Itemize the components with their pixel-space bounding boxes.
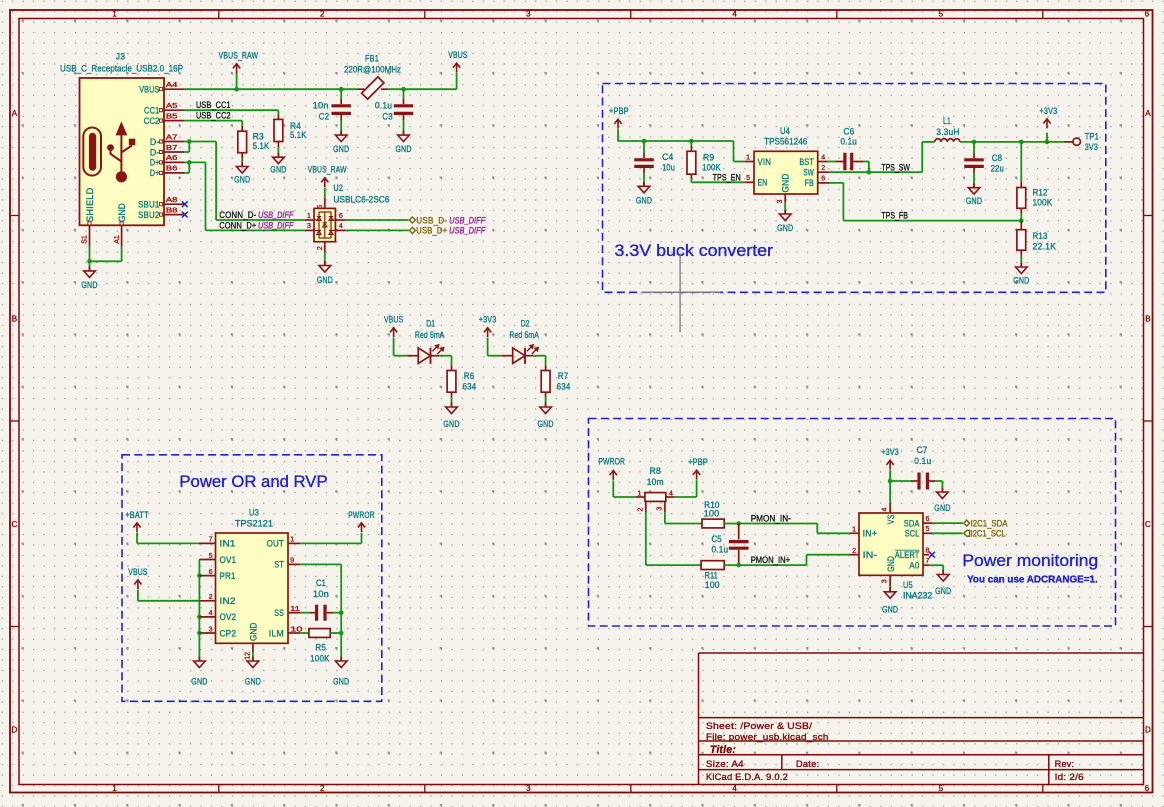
resistor R5 100K [300, 629, 341, 665]
svg-text:PMON_IN+: PMON_IN+ [751, 555, 791, 566]
svg-text:ALERT: ALERT [895, 550, 920, 561]
resistor R4 5.1K [274, 115, 307, 147]
svg-text:GND: GND [191, 676, 207, 687]
junction [888, 479, 893, 484]
ground GND R4 [270, 153, 286, 176]
capacitor C3 0.1u [375, 89, 413, 122]
svg-text:+3V3: +3V3 [479, 315, 497, 326]
junction [736, 563, 741, 568]
led D2 Red 5mA [502, 318, 540, 364]
resistor R9 100K [687, 141, 721, 179]
wire TPS_FB [829, 183, 1021, 221]
wire VBUS A4 rail [184, 73, 457, 89]
wire TPS_SW [829, 142, 935, 172]
wire [674, 480, 697, 497]
svg-text:GND: GND [777, 223, 793, 234]
svg-text:Red 5mA: Red 5mA [415, 330, 445, 341]
svg-text:D-: D- [150, 147, 160, 158]
junction [339, 87, 344, 92]
svg-text:GND: GND [248, 622, 259, 641]
svg-text:CP2: CP2 [220, 628, 237, 639]
svg-text:1: 1 [852, 527, 856, 534]
junction [234, 87, 239, 92]
test point TP1 3V3 [1064, 132, 1099, 154]
wire PMON_IN+ [724, 555, 850, 565]
svg-text:3: 3 [881, 579, 888, 583]
svg-text:5: 5 [317, 205, 324, 209]
svg-text:GND: GND [882, 604, 898, 615]
inductor L1 3.3uH [935, 116, 960, 142]
svg-text:3.3uH: 3.3uH [936, 127, 959, 138]
capacitor C5 0.1u [712, 524, 749, 566]
ground GND C7 [934, 488, 950, 514]
capacitor C1 10n [300, 578, 341, 621]
svg-text:USB_CC2: USB_CC2 [196, 111, 231, 122]
svg-text:1: 1 [307, 213, 311, 220]
svg-text:GND: GND [333, 144, 349, 155]
svg-text:C5: C5 [712, 534, 722, 545]
cursor crosshair [642, 253, 720, 332]
ground GND C4 [636, 182, 652, 207]
svg-text:3: 3 [656, 506, 663, 510]
svg-text:You can use ADCRANGE=1.: You can use ADCRANGE=1. [967, 573, 1098, 585]
wire [340, 120, 342, 135]
svg-text:GND: GND [935, 586, 951, 597]
svg-text:Id: 2/6: Id: 2/6 [1055, 772, 1084, 783]
svg-text:OUT: OUT [267, 539, 284, 550]
svg-text:S1: S1 [82, 235, 89, 244]
svg-text:VBUS_RAW: VBUS_RAW [219, 51, 259, 62]
svg-text:ST: ST [274, 560, 284, 571]
svg-text:0.1u: 0.1u [712, 544, 729, 555]
svg-text:IN+: IN+ [863, 529, 878, 540]
svg-text:VBUS: VBUS [384, 315, 403, 326]
connector J3 USB_C_Receptacle_USB2.0_16P [60, 52, 184, 247]
svg-text:PWROR: PWROR [348, 510, 375, 521]
svg-text:B5: B5 [166, 113, 178, 120]
power flag VBUS [384, 315, 403, 338]
svg-text:TPS_SW: TPS_SW [881, 162, 910, 173]
wire [277, 147, 279, 157]
svg-text:USB_DIFF: USB_DIFF [449, 226, 486, 237]
svg-text:4: 4 [881, 507, 888, 511]
svg-text:2: 2 [821, 165, 825, 172]
junction [187, 160, 192, 165]
svg-text:CC2: CC2 [144, 116, 160, 127]
svg-text:SBU2: SBU2 [138, 210, 160, 221]
svg-text:+3V3: +3V3 [1040, 106, 1058, 117]
power flag VBUS [448, 50, 467, 73]
svg-text:IN1: IN1 [220, 539, 236, 550]
junction [1019, 218, 1024, 223]
svg-text:A8: A8 [166, 197, 178, 204]
svg-text:VBUS: VBUS [139, 85, 159, 96]
ground GND U3 [245, 657, 261, 688]
svg-text:B: B [12, 314, 18, 323]
svg-text:8: 8 [926, 548, 930, 555]
wire [324, 188, 326, 198]
svg-text:2: 2 [209, 594, 213, 601]
ground GND C8 [966, 183, 982, 207]
no-connect ALERT [929, 552, 935, 558]
junction [867, 170, 872, 175]
svg-text:A: A [1145, 109, 1151, 118]
svg-text:1: 1 [638, 490, 642, 497]
svg-text:4: 4 [732, 10, 737, 19]
power flag +PBP mon [688, 457, 708, 480]
ground GND A0 [935, 570, 951, 597]
svg-text:100: 100 [704, 509, 720, 520]
svg-text:3: 3 [526, 10, 531, 19]
svg-text:100K: 100K [310, 654, 330, 665]
svg-text:634: 634 [463, 382, 477, 393]
svg-text:1: 1 [112, 784, 117, 793]
wire [973, 173, 975, 187]
resistor R6 634 [447, 365, 476, 397]
svg-text:GND: GND [443, 419, 459, 430]
svg-text:R5: R5 [315, 642, 326, 653]
svg-text:OV1: OV1 [220, 555, 237, 566]
svg-text:A1: A1 [114, 235, 121, 244]
svg-text:KiCad E.D.A. 9.0.2: KiCad E.D.A. 9.0.2 [706, 772, 788, 783]
svg-text:GND: GND [333, 676, 349, 687]
wire [1020, 255, 1022, 267]
svg-text:C: C [1145, 520, 1151, 529]
wire [488, 338, 502, 356]
ground GND C3 [395, 131, 411, 155]
svg-text:Sheet: /Power & USB/: Sheet: /Power & USB/ [706, 721, 813, 732]
resistor R10 100 [702, 500, 724, 528]
junction [197, 573, 202, 578]
svg-text:D: D [1145, 725, 1151, 734]
wire USB_CC1 [184, 110, 278, 115]
svg-text:A: A [12, 109, 18, 118]
svg-text:U2: U2 [333, 183, 343, 194]
svg-text:FB: FB [805, 178, 815, 189]
svg-text:634: 634 [557, 382, 571, 393]
svg-text:5: 5 [209, 553, 213, 560]
svg-text:GND: GND [317, 275, 333, 286]
graphic box 3.3V buck converter [603, 84, 1106, 293]
svg-text:+3V3: +3V3 [881, 447, 899, 458]
svg-text:I2C1_SCL: I2C1_SCL [971, 529, 1006, 540]
svg-text:IN2: IN2 [220, 596, 236, 607]
graphic box Power monitoring [589, 419, 1116, 627]
wire [864, 162, 869, 173]
power flag VBUS OR [128, 567, 147, 590]
power flag PWROR [348, 510, 375, 533]
svg-text:3.3V buck converter: 3.3V buck converter [615, 241, 774, 260]
svg-text:B6: B6 [166, 166, 178, 173]
svg-text:VBUS: VBUS [448, 50, 467, 61]
resistor R7 634 [541, 365, 570, 397]
svg-text:SBU1: SBU1 [138, 200, 160, 211]
wire [545, 397, 547, 407]
svg-text:VS: VS [886, 514, 897, 524]
svg-text:C2: C2 [319, 111, 330, 122]
wire PWROR out [300, 533, 361, 543]
wire [403, 120, 405, 135]
wire [137, 533, 200, 544]
capacitor C2 10n [313, 89, 351, 122]
junction [87, 259, 92, 264]
svg-text:SHIELD: SHIELD [85, 188, 96, 223]
svg-text:5: 5 [939, 10, 944, 19]
svg-text:5.1K: 5.1K [253, 141, 270, 152]
svg-text:TPS_FB: TPS_FB [881, 211, 908, 222]
svg-text:D2: D2 [521, 318, 530, 329]
svg-text:3: 3 [307, 223, 311, 230]
wire PMON_IN- [724, 524, 850, 534]
wire R8.2 to R11 [646, 512, 701, 565]
svg-text:100: 100 [705, 580, 720, 591]
svg-text:5: 5 [939, 784, 944, 793]
svg-text:PMON_IN-: PMON_IN- [751, 514, 791, 525]
svg-text:TPS561246: TPS561246 [764, 136, 807, 147]
svg-text:INA232: INA232 [903, 591, 932, 602]
svg-text:3: 3 [526, 784, 531, 793]
junction [736, 521, 741, 526]
resistor R11 100 [701, 561, 724, 591]
power flag +3V3 [1040, 106, 1058, 129]
wire TPS_EN [691, 179, 744, 183]
no-connect SBU2 [182, 212, 188, 218]
svg-text:GND: GND [395, 144, 411, 155]
power flag +BATT [125, 510, 149, 533]
power flag VBUS_RAW U2 [308, 165, 347, 188]
svg-text:0.1u: 0.1u [375, 101, 392, 112]
svg-text:1: 1 [290, 537, 294, 544]
svg-text:File: power_usb.kicad_sch: File: power_usb.kicad_sch [706, 732, 829, 743]
svg-text:0.1u: 0.1u [914, 456, 931, 467]
svg-text:2: 2 [852, 548, 856, 555]
ground GND R3 [234, 162, 250, 185]
wire OV1-PR1-OV2-CP2 rail [198, 560, 200, 661]
svg-text:GND: GND [234, 175, 250, 186]
svg-text:GND: GND [117, 203, 128, 222]
svg-text:BST: BST [799, 157, 814, 168]
power flag +PBP [609, 106, 629, 129]
svg-text:USB_DIFF: USB_DIFF [258, 210, 294, 221]
no-connect SBU1 [182, 201, 188, 207]
wire [252, 652, 254, 661]
power flag +3V3 [479, 315, 497, 338]
ic U5 INA232 [850, 503, 932, 602]
svg-text:Size: A4: Size: A4 [706, 759, 744, 770]
junction [1019, 140, 1024, 145]
ground GND ST rail [333, 657, 349, 688]
wire ST rail [300, 564, 341, 660]
svg-text:Power monitoring: Power monitoring [962, 551, 1098, 570]
svg-text:C3: C3 [382, 111, 393, 122]
ground GND R13 [1013, 263, 1029, 287]
ground GND U5 [882, 587, 898, 615]
ground GND U4 [777, 210, 793, 234]
svg-text:22.1K: 22.1K [1033, 241, 1057, 252]
svg-text:2: 2 [317, 246, 324, 250]
svg-text:OV2: OV2 [220, 612, 237, 623]
junction [197, 615, 202, 620]
svg-text:L1: L1 [943, 116, 951, 127]
svg-text:2: 2 [320, 784, 325, 793]
svg-text:USB_C_Receptacle_USB2.0_16P: USB_C_Receptacle_USB2.0_16P [60, 64, 183, 75]
svg-text:B: B [1145, 314, 1151, 323]
svg-text:Rev:: Rev: [1055, 759, 1075, 770]
svg-text:Power OR and RVP: Power OR and RVP [179, 472, 327, 491]
ground GND U3 left [191, 657, 207, 688]
svg-text:3: 3 [777, 199, 784, 203]
svg-text:SS: SS [274, 608, 284, 619]
ferrite bead FB1 220R@100MHz [344, 53, 401, 99]
svg-text:A0: A0 [909, 561, 919, 572]
svg-text:3V3: 3V3 [1085, 142, 1098, 153]
svg-text:Date:: Date: [796, 759, 819, 770]
svg-text:3: 3 [209, 626, 213, 633]
svg-text:4: 4 [732, 784, 737, 793]
svg-text:6: 6 [339, 213, 343, 220]
wire [534, 356, 546, 366]
svg-text:GND: GND [81, 280, 97, 291]
svg-text:6: 6 [1145, 784, 1150, 793]
capacitor C4 10u [634, 141, 675, 174]
wire CONN_D- [184, 142, 305, 221]
svg-text:GND: GND [886, 556, 897, 572]
ic U3 TPS2121 [199, 507, 302, 659]
ground GND C2 [333, 131, 349, 155]
power flag +3V3 mon [881, 447, 899, 470]
resistor R13 22.1K [1017, 221, 1057, 255]
svg-text:A5: A5 [166, 103, 178, 110]
svg-text:SCL: SCL [905, 529, 920, 540]
svg-text:CONN_D-: CONN_D- [219, 210, 256, 221]
junction [1045, 140, 1050, 145]
led D1 Red 5mA [407, 318, 445, 364]
svg-text:GND: GND [966, 196, 982, 207]
wire [394, 338, 408, 356]
svg-text:CONN_D+: CONN_D+ [219, 221, 256, 232]
svg-text:A6: A6 [166, 155, 178, 162]
hierarchical label USB_D+ [409, 226, 486, 237]
svg-text:1: 1 [746, 154, 750, 161]
ground GND U2 [317, 261, 333, 286]
wire A0 to gnd [929, 565, 943, 574]
svg-text:10m: 10m [647, 477, 664, 488]
svg-text:+PBP: +PBP [688, 457, 708, 468]
svg-text:7: 7 [926, 558, 930, 565]
svg-text:12: 12 [244, 652, 251, 660]
wire [324, 252, 326, 265]
svg-text:U5: U5 [903, 580, 913, 591]
ground GND J3 [81, 267, 97, 291]
svg-text:11: 11 [290, 606, 300, 613]
svg-text:10n: 10n [313, 589, 329, 600]
svg-text:4: 4 [669, 490, 673, 497]
resistor R12 100K [1017, 142, 1053, 213]
svg-text:5: 5 [746, 175, 750, 182]
junction [972, 140, 977, 145]
svg-text:4: 4 [821, 154, 825, 161]
hierarchical label I2C1_SDA [932, 518, 1008, 529]
hierarchical label USB_D- [409, 215, 486, 226]
svg-text:6: 6 [926, 516, 930, 523]
wire [346, 219, 409, 221]
svg-text:TPS_EN: TPS_EN [713, 172, 741, 183]
svg-text:D: D [12, 725, 18, 734]
svg-text:USB_DIFF: USB_DIFF [258, 221, 294, 232]
svg-text:B7: B7 [166, 145, 178, 152]
wire [889, 470, 891, 502]
svg-text:USBLC6-2SC6: USBLC6-2SC6 [333, 195, 389, 206]
svg-text:U3: U3 [249, 507, 259, 518]
svg-text:+BATT: +BATT [125, 510, 149, 521]
svg-text:GND: GND [245, 676, 261, 687]
svg-text:0.1u: 0.1u [841, 137, 857, 148]
svg-text:USB_D+: USB_D+ [416, 226, 447, 237]
svg-text:TP1: TP1 [1085, 132, 1099, 143]
title block [699, 653, 1144, 785]
svg-text:GND: GND [636, 196, 652, 207]
capacitor C6 0.1u [827, 126, 864, 170]
junction [401, 87, 406, 92]
svg-text:CC1: CC1 [144, 106, 160, 117]
junction [689, 139, 694, 144]
svg-text:D1: D1 [426, 318, 435, 329]
wire +PBP to VIN [618, 129, 744, 161]
shunt resistor R8 10m [636, 466, 674, 512]
graphic box Power OR and RVP [122, 455, 382, 702]
ic U2 USBLC6-2SC6 [305, 183, 390, 252]
ground GND R6 [443, 403, 459, 430]
svg-text:D+: D+ [150, 158, 160, 169]
wire [439, 356, 451, 366]
wire CONN_D+ [184, 162, 305, 230]
svg-text:FB1: FB1 [365, 53, 379, 64]
resistor R3 5.1K [238, 126, 270, 158]
svg-text:Title:: Title: [710, 744, 736, 756]
svg-text:7: 7 [209, 537, 213, 544]
wire [889, 586, 891, 592]
svg-text:22u: 22u [991, 164, 1004, 175]
svg-text:VBUS: VBUS [128, 567, 147, 578]
hierarchical label I2C1_SCL [932, 529, 1006, 540]
svg-text:C: C [12, 520, 18, 529]
junction [642, 139, 647, 144]
svg-text:9: 9 [290, 558, 294, 565]
svg-text:GND: GND [538, 419, 554, 430]
svg-text:6: 6 [1145, 10, 1150, 19]
svg-text:IN-: IN- [863, 550, 878, 561]
capacitor C7 0.1u [890, 445, 942, 492]
svg-text:C1: C1 [316, 578, 326, 589]
svg-text:J3: J3 [116, 52, 125, 63]
ground GND R7 [538, 403, 554, 430]
wire [138, 590, 200, 601]
junction [339, 631, 344, 636]
svg-text:PWROR: PWROR [598, 457, 625, 468]
capacitor C8 22u [964, 142, 1004, 175]
svg-text:R8: R8 [650, 466, 661, 477]
svg-text:1: 1 [112, 10, 117, 19]
svg-text:B8: B8 [166, 207, 178, 214]
svg-text:VBUS_RAW: VBUS_RAW [308, 165, 347, 176]
wire +3V3 rail [960, 133, 1064, 142]
wire [784, 203, 786, 214]
svg-text:GND: GND [934, 503, 950, 514]
junction [187, 139, 192, 144]
svg-text:VIN: VIN [758, 157, 772, 168]
svg-text:10n: 10n [313, 101, 329, 112]
wire USB_CC2 [184, 121, 242, 126]
